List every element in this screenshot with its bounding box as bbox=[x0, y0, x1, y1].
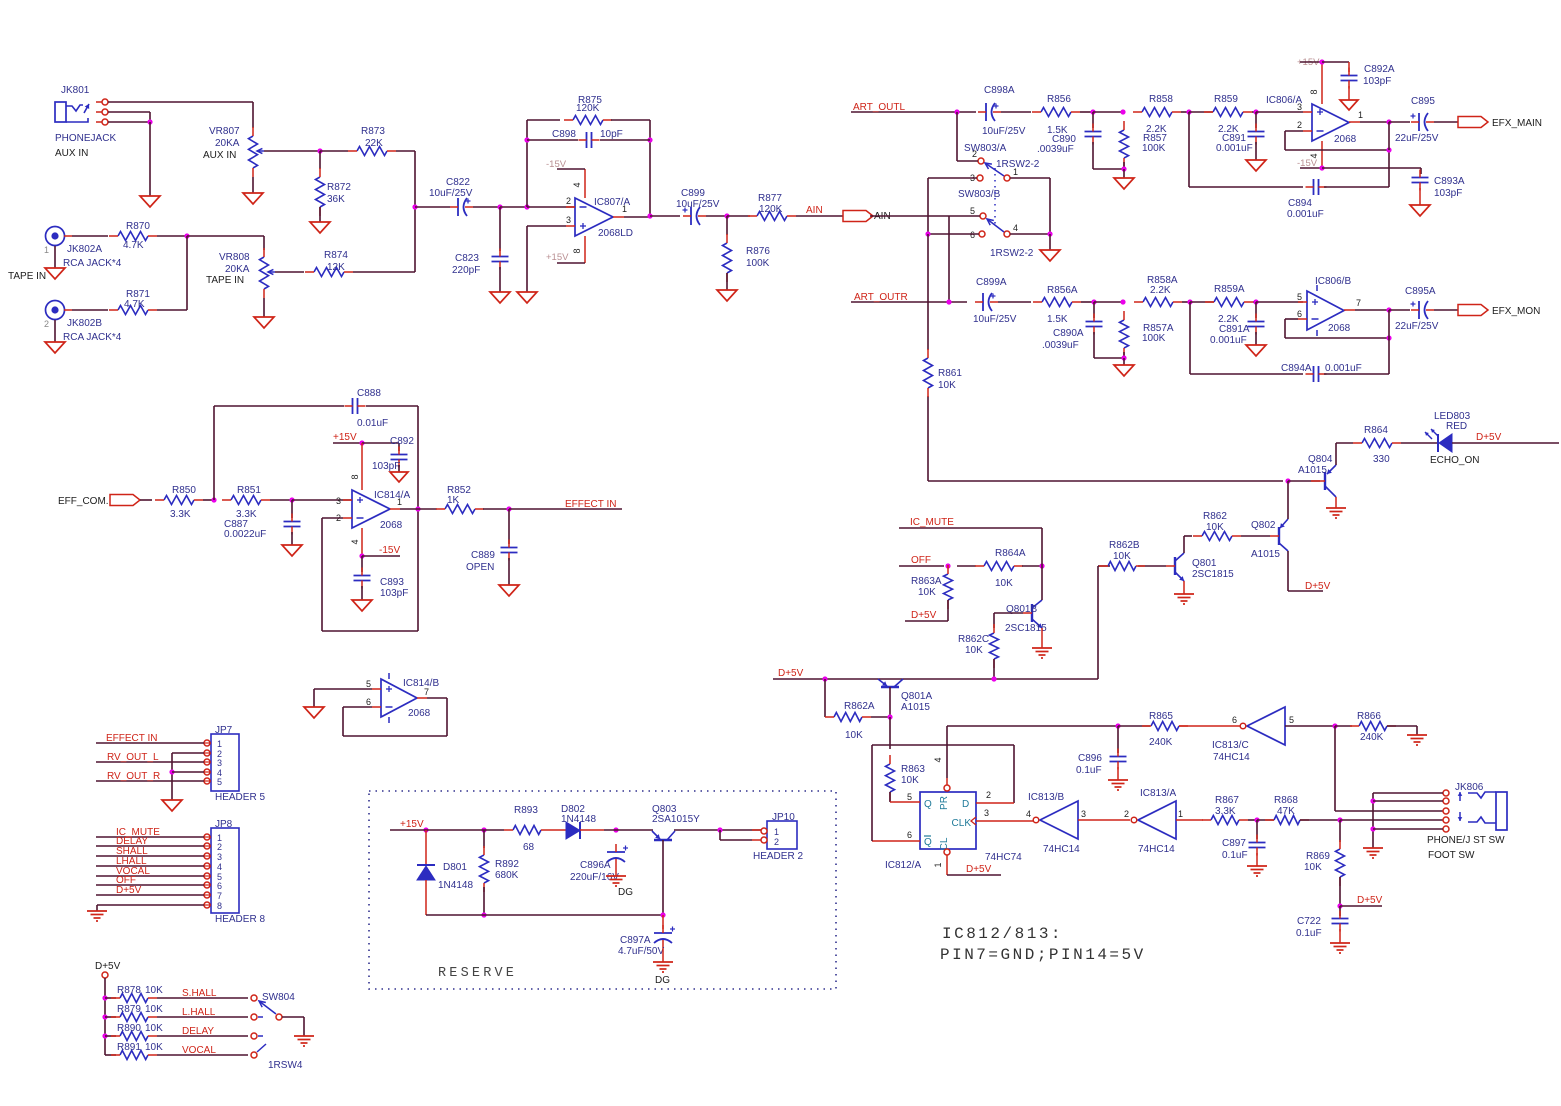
svg-text:TAPE IN: TAPE IN bbox=[8, 271, 46, 282]
wire IC813C node to JK806 contact3 bbox=[1335, 726, 1443, 811]
resistor R864A 10K bbox=[957, 548, 1026, 589]
node main input bbox=[412, 204, 417, 209]
wire pin2 loop IC814 bbox=[322, 518, 418, 631]
node C891A tap bbox=[1253, 299, 1303, 304]
svg-text:VOCAL: VOCAL bbox=[182, 1045, 216, 1056]
resistor R858 2.2K bbox=[1133, 94, 1181, 135]
ground C722 bbox=[1330, 929, 1350, 953]
svg-text:R859A: R859A bbox=[1214, 284, 1245, 295]
resistor R871 4.7K bbox=[72, 289, 157, 315]
wire R892 bottom bbox=[481, 887, 486, 918]
svg-text:220pF: 220pF bbox=[452, 265, 480, 276]
svg-text:4: 4 bbox=[1013, 223, 1018, 233]
svg-text:JK801: JK801 bbox=[61, 85, 90, 96]
ground C823 bbox=[490, 267, 510, 303]
svg-text:330: 330 bbox=[1373, 454, 1390, 465]
resistor R893 68 bbox=[474, 805, 550, 853]
svg-text:R864: R864 bbox=[1364, 425, 1388, 436]
svg-text:6: 6 bbox=[217, 881, 222, 891]
wire Q801 base from R862B bbox=[1138, 565, 1166, 567]
wire feedback down C894 bbox=[1189, 112, 1303, 187]
wire C888 left vertical bbox=[213, 406, 215, 500]
wire feedback down C894A bbox=[1190, 302, 1303, 374]
svg-text:Q: Q bbox=[924, 799, 932, 810]
node C896A tap bbox=[604, 827, 653, 832]
svg-text:D+5V: D+5V bbox=[1357, 895, 1383, 906]
svg-text:2SC1815: 2SC1815 bbox=[1005, 623, 1047, 634]
wire ART_OUTL to SW803A pin2 bbox=[957, 112, 978, 161]
node Q804 base bbox=[1285, 478, 1320, 483]
svg-text:10uF/25V: 10uF/25V bbox=[676, 199, 720, 210]
resistor R856 1.5K bbox=[1001, 94, 1080, 136]
svg-text:2: 2 bbox=[986, 790, 991, 800]
resistor R875 120K feedback bbox=[527, 95, 650, 125]
svg-text:D801: D801 bbox=[443, 862, 467, 873]
svg-text:2068: 2068 bbox=[1334, 134, 1357, 145]
capacitor C888 0.01uF feedback bbox=[214, 388, 418, 429]
svg-text:SW803/B: SW803/B bbox=[958, 189, 1001, 200]
power -15V pin4 IC807 bbox=[546, 159, 585, 190]
svg-text:2: 2 bbox=[1124, 809, 1129, 819]
resistor R870 4.7K bbox=[72, 221, 157, 251]
svg-text:10K: 10K bbox=[145, 985, 163, 996]
svg-text:C899: C899 bbox=[681, 188, 705, 199]
svg-text:C898A: C898A bbox=[984, 85, 1015, 96]
node R869 tap bbox=[1300, 817, 1343, 822]
svg-text:2.2K: 2.2K bbox=[1150, 285, 1171, 296]
svg-text:0.001uF: 0.001uF bbox=[1216, 143, 1253, 154]
svg-text:74HC14: 74HC14 bbox=[1213, 752, 1250, 763]
transistor Q801B 2SC1815 bbox=[1005, 600, 1047, 634]
node C899/R876 bbox=[706, 213, 730, 218]
resistor R856A 1.5K bbox=[998, 285, 1081, 325]
svg-text:0.001uF: 0.001uF bbox=[1325, 363, 1362, 374]
ground C889 bbox=[499, 558, 519, 596]
svg-text:2068LD: 2068LD bbox=[598, 228, 633, 239]
svg-text:R863A: R863A bbox=[911, 576, 942, 587]
wire IC813A input from R867 bbox=[1176, 819, 1203, 821]
port AIN bbox=[843, 211, 891, 223]
svg-text:A1015: A1015 bbox=[1298, 465, 1327, 476]
svg-text:3: 3 bbox=[566, 215, 571, 225]
resistor R863A 10K bbox=[911, 565, 953, 609]
svg-text:R873: R873 bbox=[361, 126, 385, 137]
inverter IC813/C 74HC14 bbox=[1212, 707, 1294, 763]
resistor R866 240K bbox=[1335, 711, 1396, 743]
capacitor C896A 220uF/16V bbox=[570, 844, 628, 883]
svg-text:1: 1 bbox=[622, 204, 627, 214]
power +15V RESERVE bbox=[390, 819, 424, 830]
svg-text:C896: C896 bbox=[1078, 753, 1102, 764]
wire JK801 ring bbox=[108, 112, 150, 122]
svg-text:103pF: 103pF bbox=[1363, 76, 1391, 87]
connector JP7 HEADER 5 bbox=[204, 725, 265, 803]
svg-text:3: 3 bbox=[1081, 809, 1086, 819]
resistor R862A 10K bbox=[825, 701, 875, 741]
ground JK802A bbox=[45, 246, 65, 279]
svg-text:R867: R867 bbox=[1215, 795, 1239, 806]
wire Q802 emitter bbox=[1287, 481, 1289, 519]
svg-text:A1015: A1015 bbox=[901, 702, 930, 713]
svg-text:R858: R858 bbox=[1149, 94, 1173, 105]
svg-text:RV_OUT_L: RV_OUT_L bbox=[107, 752, 159, 763]
wire Q801B base to R862C bbox=[994, 613, 1023, 628]
svg-text:8: 8 bbox=[572, 248, 582, 253]
svg-text:C897: C897 bbox=[1222, 838, 1246, 849]
capacitor C895 22uF/25V bbox=[1389, 96, 1439, 144]
wire R861 chain bbox=[928, 234, 1283, 481]
port EFX_MAIN bbox=[1434, 117, 1542, 130]
connector JK801 phone jack bbox=[55, 85, 116, 159]
svg-text:R876: R876 bbox=[746, 246, 770, 257]
svg-text:C897A: C897A bbox=[620, 935, 651, 946]
svg-text:C895A: C895A bbox=[1405, 286, 1436, 297]
svg-text:IC813/A: IC813/A bbox=[1140, 788, 1176, 799]
power +15V pin8 IC807 bbox=[546, 244, 585, 263]
svg-text:+15V: +15V bbox=[400, 819, 424, 830]
svg-text:R892: R892 bbox=[495, 859, 519, 870]
svg-text:ART_OUTL: ART_OUTL bbox=[853, 102, 905, 113]
ground JP7 bbox=[162, 800, 182, 811]
svg-text:EFFECT IN: EFFECT IN bbox=[565, 499, 616, 510]
net wire IC_MUTE bbox=[899, 517, 1042, 528]
wire AIN to SW803B pin5 bbox=[870, 216, 980, 302]
node C890 tap bbox=[1080, 109, 1096, 114]
svg-text:IC814/B: IC814/B bbox=[403, 678, 439, 689]
ground Q801B bbox=[1032, 628, 1052, 658]
net wire L.HALL bbox=[157, 1007, 248, 1018]
svg-text:C823: C823 bbox=[455, 253, 479, 264]
ground C897 bbox=[1247, 853, 1267, 876]
potentiometer VR808 20KA TAPE IN bbox=[206, 248, 275, 298]
svg-text:10K: 10K bbox=[1206, 522, 1224, 533]
switch SW804 blade bbox=[259, 1001, 282, 1020]
svg-text:D+5V: D+5V bbox=[966, 864, 992, 875]
svg-text:2SC1815: 2SC1815 bbox=[1192, 569, 1234, 580]
svg-text:D: D bbox=[962, 799, 969, 810]
node feedback tap bbox=[500, 204, 575, 209]
svg-text:VR807: VR807 bbox=[209, 126, 240, 137]
wire pin5 to ground IC814B bbox=[314, 689, 372, 707]
svg-text:3.3K: 3.3K bbox=[1215, 806, 1236, 817]
svg-text:-15V: -15V bbox=[379, 545, 400, 556]
power -15V IC806A pin4 bbox=[1297, 148, 1325, 171]
svg-text:HEADER 2: HEADER 2 bbox=[753, 851, 803, 862]
node IC806A output bbox=[1360, 119, 1392, 150]
capacitor C893A 103pF bbox=[1412, 170, 1465, 200]
svg-text:1RSW4: 1RSW4 bbox=[268, 1060, 303, 1071]
resistor R878 10K bbox=[105, 985, 163, 1003]
node C894A feedback tap bbox=[1182, 299, 1214, 304]
svg-text:DG: DG bbox=[655, 975, 670, 986]
op-amp IC814/B 2068 bbox=[366, 673, 439, 723]
svg-text:6: 6 bbox=[1297, 309, 1302, 319]
svg-text:VR808: VR808 bbox=[219, 252, 250, 263]
pin PR IC812 bbox=[933, 757, 950, 791]
svg-text:2: 2 bbox=[774, 837, 779, 847]
resistor R872 36K bbox=[316, 151, 352, 216]
op-amp IC807/A 2068LD bbox=[566, 190, 633, 244]
JK801 contact pins bbox=[96, 99, 108, 125]
svg-text:20KA: 20KA bbox=[225, 264, 250, 275]
svg-text:R851: R851 bbox=[237, 485, 261, 496]
resistor R864 330 bbox=[1336, 425, 1401, 465]
svg-text:.0039uF: .0039uF bbox=[1042, 340, 1079, 351]
wire PR net to C896 bbox=[947, 726, 1118, 778]
svg-text:5: 5 bbox=[907, 792, 912, 802]
svg-text:HEADER 8: HEADER 8 bbox=[215, 914, 265, 925]
wire SW803A pin1 to gnd rail bbox=[1010, 178, 1050, 234]
svg-text:10uF/25V: 10uF/25V bbox=[982, 126, 1026, 137]
svg-text:C899A: C899A bbox=[976, 277, 1007, 288]
svg-text:74HC14: 74HC14 bbox=[1138, 844, 1175, 855]
net wire RV_OUT_L JP7 pin3 bbox=[96, 752, 204, 763]
svg-text:R877: R877 bbox=[758, 193, 782, 204]
wire rail to R862B bbox=[1098, 566, 1110, 679]
svg-text:6: 6 bbox=[366, 697, 371, 707]
svg-text:OFF: OFF bbox=[911, 555, 931, 566]
svg-text:4: 4 bbox=[933, 757, 943, 762]
node R862C rail junction bbox=[991, 676, 996, 681]
svg-text:12K: 12K bbox=[327, 262, 345, 273]
port EFX_MON bbox=[1434, 305, 1540, 318]
svg-text:C891A: C891A bbox=[1219, 324, 1250, 335]
capacitor C822 10uF/25V bbox=[415, 177, 473, 216]
svg-text:74HC14: 74HC14 bbox=[1043, 844, 1080, 855]
potentiometer VR807 20KA AUX IN bbox=[203, 126, 264, 177]
port EFF_COM bbox=[58, 495, 140, 508]
net wire IC_MUTE JP8 bbox=[96, 827, 204, 838]
node R864A IC_MUTE junction bbox=[1022, 528, 1045, 569]
svg-text:3: 3 bbox=[217, 758, 222, 768]
svg-text:DG: DG bbox=[618, 887, 633, 898]
connector JK802A RCA jack bbox=[44, 227, 122, 270]
wire JP8 pin8 to ground bbox=[97, 905, 204, 911]
svg-text:1N4148: 1N4148 bbox=[438, 880, 473, 891]
ground C893A bbox=[1410, 188, 1430, 216]
svg-text:5: 5 bbox=[217, 777, 222, 787]
svg-text:3: 3 bbox=[217, 852, 222, 862]
node VR807 wiper junction bbox=[317, 148, 322, 153]
svg-text:A1015: A1015 bbox=[1251, 549, 1280, 560]
wire C888 right vertical bbox=[417, 406, 419, 631]
svg-text:36K: 36K bbox=[327, 194, 345, 205]
node C887 tap bbox=[270, 497, 352, 502]
ground VR807 bbox=[243, 177, 263, 204]
wire CLK pin3 from IC813B bbox=[976, 820, 1033, 822]
node JP10 pin1 tap bbox=[674, 827, 764, 832]
svg-text:D+5V: D+5V bbox=[116, 885, 142, 896]
svg-text:47K: 47K bbox=[1277, 806, 1295, 817]
node R857 main tap bbox=[1093, 109, 1126, 114]
svg-text:R862B: R862B bbox=[1109, 540, 1140, 551]
node C891 tap bbox=[1252, 109, 1303, 114]
power +15V IC814 bbox=[333, 432, 399, 446]
svg-text:2: 2 bbox=[217, 842, 222, 852]
wire R863A to D+5V bbox=[905, 600, 948, 621]
svg-text:AUX IN: AUX IN bbox=[203, 150, 236, 161]
svg-text:R863: R863 bbox=[901, 764, 925, 775]
net wire DELAY bbox=[157, 1026, 248, 1037]
svg-text:5: 5 bbox=[1289, 715, 1294, 725]
svg-text:6: 6 bbox=[970, 230, 975, 240]
node D801 tap bbox=[416, 827, 474, 832]
svg-text:4: 4 bbox=[1026, 809, 1031, 819]
wire JK806 grounds bbox=[1370, 793, 1443, 848]
ground Q801 bbox=[1174, 581, 1194, 604]
svg-text:22K: 22K bbox=[365, 138, 383, 149]
net wire ART_OUTL bbox=[851, 102, 976, 113]
resistor R873 22K bbox=[320, 126, 396, 156]
resistor R852 1K bbox=[418, 485, 484, 514]
power D+5V LED bbox=[1452, 432, 1559, 443]
svg-text:1.5K: 1.5K bbox=[1047, 314, 1068, 325]
svg-text:1: 1 bbox=[44, 245, 49, 255]
svg-text:1: 1 bbox=[1013, 167, 1018, 177]
svg-text:R891: R891 bbox=[117, 1042, 141, 1053]
resistor R862 10K bbox=[1184, 511, 1270, 541]
svg-text:1K: 1K bbox=[447, 495, 460, 506]
wire SW803B pin4 to ground bbox=[1010, 231, 1053, 250]
svg-text:Q: Q bbox=[924, 837, 932, 848]
net wire DELAY JP8 bbox=[96, 836, 204, 847]
wire R873 to C822 node bbox=[396, 151, 415, 207]
svg-text:IC806/B: IC806/B bbox=[1315, 276, 1351, 287]
connector JK806 PHONE/J ST SW bbox=[1427, 782, 1507, 861]
ground R876 bbox=[717, 273, 737, 301]
svg-text:Q801A: Q801A bbox=[901, 691, 932, 702]
svg-text:10K: 10K bbox=[938, 380, 956, 391]
svg-text:4: 4 bbox=[350, 539, 360, 544]
note IC812/813 pin power bbox=[940, 925, 1146, 964]
svg-text:C894A: C894A bbox=[1281, 363, 1312, 374]
wire R871 to junction bbox=[157, 309, 187, 311]
resistor R859A 2.2K bbox=[1205, 284, 1253, 325]
svg-text:ART_OUTR: ART_OUTR bbox=[854, 292, 908, 303]
svg-text:10K: 10K bbox=[145, 1042, 163, 1053]
svg-text:R890: R890 bbox=[117, 1023, 141, 1034]
node R857A bottom bbox=[1121, 352, 1126, 361]
power D+5V SW804 bbox=[95, 961, 121, 1055]
op-amp IC814/A 2068 bbox=[336, 482, 410, 536]
svg-text:ECHO_ON: ECHO_ON bbox=[1430, 455, 1479, 466]
svg-text:IC812/A: IC812/A bbox=[885, 860, 921, 871]
capacitor C890 .0039uF bbox=[1037, 112, 1102, 155]
transistor Q803 2SA1015Y bbox=[652, 804, 700, 915]
inverter IC813/B 74HC14 bbox=[1026, 792, 1086, 855]
ground DG C896A bbox=[606, 867, 633, 898]
svg-text:103pF: 103pF bbox=[372, 461, 400, 472]
svg-text:C898: C898 bbox=[552, 129, 576, 140]
wire junction to VR808 bbox=[187, 236, 264, 250]
net wire EFFECT IN bbox=[509, 499, 622, 510]
node Q801A base R863 bbox=[871, 714, 893, 719]
switch SW804 contacts bbox=[251, 992, 303, 1071]
svg-text:0.1uF: 0.1uF bbox=[1296, 928, 1322, 939]
svg-text:IC813/C: IC813/C bbox=[1212, 740, 1249, 751]
svg-text:1: 1 bbox=[397, 497, 402, 507]
ground JK801 bbox=[140, 196, 160, 207]
svg-text:1: 1 bbox=[1178, 809, 1183, 819]
svg-text:6: 6 bbox=[1232, 715, 1237, 725]
svg-text:PR: PR bbox=[939, 796, 950, 810]
node C898 left bbox=[524, 137, 529, 142]
svg-text:PHONEJACK: PHONEJACK bbox=[55, 133, 116, 144]
capacitor C892 103pF bbox=[372, 436, 414, 472]
ground JK802B bbox=[45, 320, 65, 353]
svg-text:103pF: 103pF bbox=[1434, 188, 1462, 199]
ground C892 bbox=[390, 465, 408, 482]
capacitor C898 10pF bbox=[527, 129, 650, 148]
svg-text:AIN: AIN bbox=[806, 205, 823, 216]
svg-text:RV_OUT_R: RV_OUT_R bbox=[107, 771, 160, 782]
svg-text:0.001uF: 0.001uF bbox=[1287, 209, 1324, 220]
node C896 tap bbox=[1115, 723, 1120, 728]
ground C896 bbox=[1108, 767, 1128, 790]
svg-text:IC814/A: IC814/A bbox=[374, 490, 410, 501]
svg-text:10K: 10K bbox=[965, 645, 983, 656]
resistor R850 3.3K bbox=[140, 485, 203, 520]
svg-text:22uF/25V: 22uF/25V bbox=[1395, 321, 1439, 332]
svg-text:3: 3 bbox=[1297, 102, 1302, 112]
svg-text:DELAY: DELAY bbox=[182, 1026, 214, 1037]
svg-text:Q804: Q804 bbox=[1308, 454, 1333, 465]
op-amp IC806/B 2068 bbox=[1297, 276, 1361, 336]
svg-text:10pF: 10pF bbox=[600, 129, 623, 140]
capacitor C899A 10uF/25V bbox=[973, 277, 1017, 325]
svg-text:R878: R878 bbox=[117, 985, 141, 996]
bottom rail RESERVE bbox=[426, 914, 663, 916]
node R857 bottom bbox=[1121, 162, 1126, 172]
svg-text:1: 1 bbox=[217, 739, 222, 749]
svg-text:4: 4 bbox=[217, 862, 222, 872]
svg-text:R866: R866 bbox=[1357, 711, 1381, 722]
net wire D+5V JP8 bbox=[96, 885, 204, 896]
resistor R865 240K bbox=[1118, 711, 1240, 748]
node IC806B output bbox=[1355, 307, 1392, 338]
wire Q802 collector to D+5V bbox=[1288, 551, 1331, 592]
power D+5V IC812 CL bbox=[947, 864, 1001, 875]
node IC814 output bbox=[400, 506, 421, 511]
capacitor C722 0.1uF bbox=[1296, 906, 1349, 939]
svg-text:Q801: Q801 bbox=[1192, 558, 1217, 569]
svg-text:3: 3 bbox=[984, 808, 989, 818]
wire C894A to output node bbox=[1324, 338, 1389, 374]
node C822/C823 bbox=[473, 204, 503, 209]
svg-text:-15V: -15V bbox=[546, 159, 567, 170]
svg-text:6: 6 bbox=[907, 830, 912, 840]
diode D801 1N4148 bbox=[417, 830, 473, 915]
resistor R867 3.3K bbox=[1202, 795, 1248, 825]
svg-text:C892: C892 bbox=[390, 436, 414, 447]
label TAPE IN bbox=[8, 271, 46, 282]
svg-text:10K: 10K bbox=[1304, 862, 1322, 873]
svg-text:8: 8 bbox=[217, 901, 222, 911]
svg-text:+15V: +15V bbox=[333, 432, 357, 443]
svg-text:R865: R865 bbox=[1149, 711, 1173, 722]
svg-text:JP7: JP7 bbox=[215, 725, 233, 736]
net label AIN bbox=[806, 205, 823, 216]
svg-text:10K: 10K bbox=[145, 1023, 163, 1034]
svg-text:2.2K: 2.2K bbox=[1146, 124, 1167, 135]
svg-text:RCA JACK*4: RCA JACK*4 bbox=[63, 258, 122, 269]
wire SW804 common to ground bbox=[282, 1017, 304, 1036]
svg-text:R864A: R864A bbox=[995, 548, 1026, 559]
ground IC807 pin3 bbox=[517, 292, 537, 303]
resistor R892 680K bbox=[480, 846, 520, 892]
resistor R862B 10K bbox=[1099, 540, 1145, 571]
svg-text:.0039uF: .0039uF bbox=[1037, 144, 1074, 155]
